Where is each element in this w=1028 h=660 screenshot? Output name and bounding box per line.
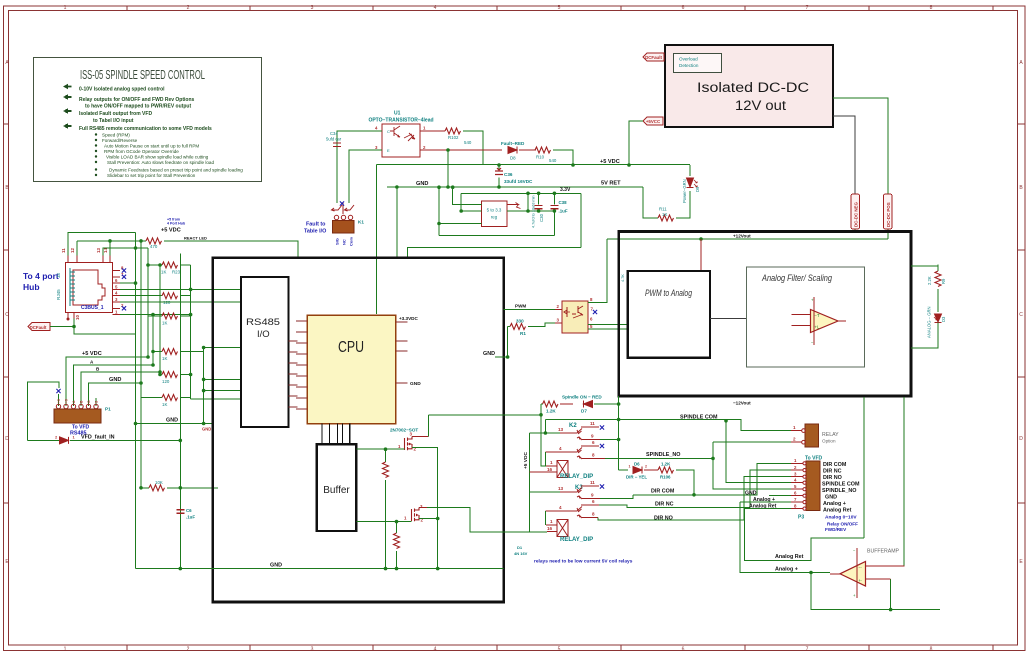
gnd stub p3 (769, 495, 791, 497)
svg-text:ISS-05 SPINDLE SPEED CONTROL: ISS-05 SPINDLE SPEED CONTROL (80, 67, 205, 82)
wire rs485 390 (204, 390, 241, 392)
junction +12v pwm drop (699, 237, 703, 241)
svg-text:C30: C30 (539, 213, 544, 222)
wire U1 pin3 to K1 (349, 150, 382, 203)
LED D9 Power-GRN (682, 165, 700, 205)
svg-text:4: 4 (559, 505, 562, 510)
svg-text:GND: GND (483, 351, 495, 357)
junction r120b left (158, 373, 162, 377)
svg-text:SPINDLE COM: SPINDLE COM (822, 482, 860, 488)
svg-text:E: E (387, 148, 390, 153)
frame row ticks right (1018, 124, 1026, 503)
svg-text:+5: +5 (65, 399, 69, 403)
resistor R9 loop (911, 265, 946, 313)
svg-text:.1uF: .1uF (186, 515, 195, 520)
svg-text:33ufd 16VDC: 33ufd 16VDC (504, 179, 533, 184)
svg-text:−T: −T (815, 313, 820, 318)
svg-text:5: 5 (558, 5, 561, 11)
junction r1kb left (151, 350, 155, 354)
junction +5 p1 (146, 355, 150, 359)
P1 pin stub1 (58, 394, 60, 406)
reg output rail (507, 210, 555, 212)
diode VFD fault (55, 435, 76, 444)
junction x153 (151, 313, 155, 317)
junction gnd rail b (497, 185, 501, 189)
K2 pin9 wire (582, 439, 600, 441)
junction 3v3 drop (459, 209, 463, 213)
svg-text:REACT LED: REACT LED (184, 236, 207, 241)
junction analog+ feedback (809, 571, 813, 575)
MOSFET Q2 (404, 504, 427, 523)
svg-text:Analog +: Analog + (823, 501, 846, 507)
svg-text:1K: 1K (162, 356, 167, 361)
svg-text:C: C (1019, 312, 1023, 318)
opto U2 pin2 stub (555, 309, 562, 311)
junction P1 gnd (139, 381, 143, 385)
K2 coil (530, 460, 569, 478)
SPINDLE_NO wire (605, 457, 713, 459)
svg-text:RELAY: RELAY (822, 432, 839, 438)
resistor R1Ka (148, 313, 191, 326)
svg-text:+5: +5 (57, 399, 61, 403)
junction gnd rail q1s (436, 567, 440, 571)
svg-text:470: 470 (150, 244, 158, 249)
K1 pin circles (334, 215, 352, 219)
svg-text:3: 3 (311, 5, 314, 11)
svg-text:CPU: CPU (338, 339, 364, 356)
wire pin11 to bus (68, 233, 136, 256)
K3 pin13 wire (530, 491, 561, 493)
P1 A wire (74, 365, 154, 406)
reg pin1 wire from gnd rail (453, 187, 482, 204)
svg-text:+L: +L (815, 325, 820, 330)
junction gnd mid b (202, 422, 206, 426)
wire rs485 399 (191, 398, 241, 400)
svg-text:D6: D6 (634, 462, 640, 467)
wire +5 rail down to CPU (375, 165, 377, 315)
svg-text:I/O: I/O (257, 329, 270, 340)
svg-text:BUFFERAMP: BUFFERAMP (867, 549, 900, 555)
CPU left pin stubs (296, 321, 307, 409)
svg-text:C38: C38 (559, 200, 568, 205)
svg-text:1: 1 (550, 460, 553, 465)
junction pin6 (134, 281, 138, 285)
junction dcfault (72, 325, 76, 329)
X pin8 (122, 268, 126, 272)
svg-text:2N7002−SOT: 2N7002−SOT (390, 428, 418, 433)
svg-text:GND: GND (270, 563, 282, 569)
svg-text:5ufd car: 5ufd car (326, 137, 342, 142)
K2 contact 2 (577, 448, 582, 460)
junction r120b right (189, 373, 193, 377)
frame column ticks bottom (127, 645, 993, 651)
capacitor C36 (495, 165, 533, 187)
svg-text:3.3V: 3.3V (560, 187, 571, 193)
CPUSEC (136, 258, 548, 602)
junction Q2 source (436, 517, 440, 521)
junction x541 (539, 413, 543, 417)
RJ45 right pin stubs (113, 271, 121, 315)
3.3V net (461, 193, 581, 211)
svg-text:ANALOG − GRN: ANALOG − GRN (927, 306, 932, 338)
svg-text:K1: K1 (358, 220, 364, 225)
LEFTSEC (23, 218, 298, 569)
pulldown resistor Q2 (394, 522, 400, 569)
capacitor C38 (550, 193, 567, 235)
wire pin6 (120, 282, 136, 284)
junction gnd into box (395, 185, 399, 189)
wire U1 pin4 to K1 (337, 131, 382, 203)
+5 VDC rail (376, 164, 690, 166)
GND wire mid (136, 423, 213, 425)
wire dc-dc neg output (833, 116, 855, 194)
opto U1 internals (390, 126, 415, 141)
wire U2 pin6 (588, 324, 628, 326)
svg-text:12: 12 (70, 248, 75, 253)
K2 pin4 drop (545, 452, 547, 466)
svg-text:+5 VDC: +5 VDC (600, 159, 620, 165)
svg-text:2: 2 (645, 465, 647, 469)
svg-text:DIR COM: DIR COM (651, 489, 675, 495)
junction 347 (202, 346, 206, 350)
svg-text:8: 8 (930, 5, 933, 11)
svg-text:7: 7 (806, 5, 809, 11)
vert 528 (527, 193, 529, 211)
junction A (151, 363, 155, 367)
svg-text:540: 540 (549, 158, 557, 163)
junction +5VCC rail (627, 163, 631, 167)
svg-text:C: C (387, 129, 390, 134)
svg-text:5 to 3.3: 5 to 3.3 (487, 208, 502, 213)
feature line 1 (63, 84, 72, 90)
vertical x135 long (135, 233, 137, 569)
svg-text:.1uF: .1uF (559, 209, 568, 214)
svg-text:GND: GND (825, 494, 837, 500)
P3 pin labels (822, 462, 860, 514)
svg-text:0-10V Isolated analog spped co: 0-10V Isolated analog spped control (79, 87, 165, 93)
capacitor C30 (532, 193, 545, 228)
wire U1 pin2 (420, 149, 502, 151)
svg-text:To 4 port: To 4 port (23, 271, 59, 281)
RJ45 jack outline (73, 270, 105, 305)
MOSFET Q1 (390, 428, 429, 452)
K3 pin9 wire DIR COM (582, 498, 600, 500)
svg-text:P1: P1 (105, 407, 111, 412)
svg-text:PWM to Analog: PWM to Analog (645, 288, 692, 298)
K3 pin8 wire DIR NO (582, 516, 598, 518)
PWMSEC (504, 232, 946, 397)
junction 390 (202, 389, 206, 393)
svg-text:Analog +: Analog + (775, 567, 798, 573)
junction x160 top (158, 263, 162, 267)
junction gnd mid a (134, 422, 138, 426)
GND bottom rail (136, 568, 504, 570)
reg bottom loop (439, 234, 554, 236)
Analog Ret net wire (745, 509, 864, 561)
svg-text:Slidebar to set trip point for: Slidebar to set trip point for Stall Pre… (107, 173, 196, 178)
vertical x541 (541, 404, 557, 466)
svg-text:SPINDLE COM: SPINDLE COM (680, 415, 718, 421)
Q2 drain red stub (419, 507, 427, 509)
wire pin3 long (120, 301, 241, 303)
svg-text:2: 2 (187, 647, 190, 653)
resistor 10K (141, 480, 218, 491)
opto U1 box (382, 124, 420, 157)
vertical k2 com spindle (618, 396, 620, 470)
svg-text:DCFault: DCFault (30, 325, 47, 330)
regulator 5 to 3.3 box (481, 201, 506, 226)
svg-text:13: 13 (96, 248, 101, 253)
junction pin14 (108, 239, 112, 243)
svg-text:540: 540 (464, 140, 472, 145)
svg-text:10K: 10K (155, 480, 163, 485)
svg-text:4N 16V: 4N 16V (514, 551, 528, 556)
svg-text:10: 10 (75, 315, 80, 320)
tag DC-DC POS (884, 194, 893, 229)
svg-text:Relay outputs for ON/OFF and F: Relay outputs for ON/OFF and FWD Rev Opt… (79, 97, 194, 103)
junction c30 top (537, 192, 541, 196)
wire pin13 (103, 248, 148, 256)
K3 pin4 wire (546, 510, 578, 512)
junction 528 top (526, 192, 530, 196)
svg-text:D: D (5, 436, 9, 442)
junction fault vertical (179, 439, 183, 443)
RJ45 top pin stubs (68, 256, 110, 263)
wire pin14 (109, 241, 111, 256)
opto U2 pin numbers (557, 297, 594, 329)
K3 pin11 wire (581, 485, 599, 487)
svg-text:GND: GND (109, 377, 121, 383)
svg-text:+12Vout: +12Vout (733, 234, 751, 239)
resistor R470 (77, 238, 298, 258)
RJ45 pin comb (70, 268, 75, 306)
resistor R102 (420, 128, 483, 165)
svg-text:Power−GRN: Power−GRN (682, 179, 687, 203)
svg-text:1: 1 (629, 465, 631, 469)
P1 pin labels (57, 399, 99, 403)
svg-text:C: C (5, 312, 9, 318)
vertical x153 (152, 315, 154, 365)
tag DCFault (643, 53, 664, 61)
pwm output wire (710, 318, 747, 320)
wire U2 pin8 to 12v (588, 239, 607, 303)
vertical x141 (140, 241, 142, 488)
junction r10 rail (571, 163, 575, 167)
K3 pin11 X (600, 484, 604, 488)
svg-text:to Tabel I/O input: to Tabel I/O input (93, 118, 134, 124)
junction Q2 gate pulldown (395, 520, 399, 524)
junction x141 bottom (139, 486, 143, 490)
P3 pin stubs (791, 462, 806, 511)
K3 pin4 drop (545, 511, 547, 525)
svg-text:5V RET: 5V RET (601, 181, 621, 187)
junction Q1 gate pulldown (384, 447, 388, 451)
svg-text:1: 1 (793, 425, 796, 430)
svg-text:D7: D7 (581, 409, 587, 414)
svg-text:D8: D8 (510, 156, 516, 161)
P1 pin6 stub (95, 398, 97, 406)
P1 +5 wire (66, 357, 148, 406)
K1 X mark (340, 201, 344, 205)
wire Q2 drain to relay K3 (427, 508, 547, 533)
wire rs485 347 (204, 347, 241, 349)
junction gnd rail x180 (179, 567, 183, 571)
pwm container box (619, 232, 911, 397)
capacitor C34 (326, 131, 342, 147)
svg-text:R102: R102 (448, 135, 459, 140)
svg-text:RELAY_DIP: RELAY_DIP (560, 474, 593, 480)
cpu container box (213, 258, 504, 602)
Q1 drain red stub (412, 436, 429, 438)
svg-text:6: 6 (682, 5, 685, 11)
wire Q1 drain up (429, 415, 541, 437)
op-amp U3 (792, 297, 846, 345)
wire x160 drop (159, 265, 161, 375)
K3 contact 2 (577, 507, 582, 519)
svg-text:+·: +· (859, 578, 863, 583)
BUFFERAMP op-amp (830, 548, 905, 598)
svg-text:Option: Option (822, 439, 836, 444)
junction gnd rail a (446, 185, 450, 189)
resistor R1 (508, 319, 555, 337)
wire +12v into pwm box (700, 239, 702, 271)
resistor R120b (160, 372, 191, 385)
junction pin13 bus (134, 246, 138, 250)
svg-text:DIR − YEL: DIR − YEL (626, 475, 647, 480)
svg-text:RJ45: RJ45 (56, 289, 61, 300)
svg-text:2: 2 (187, 5, 190, 11)
isolated dc-dc module box (665, 45, 833, 127)
diode D6 (619, 462, 648, 480)
svg-text:SPINDLE_NO: SPINDLE_NO (822, 488, 856, 494)
svg-text:4: 4 (559, 446, 562, 451)
wire fault left loop (27, 382, 59, 440)
svg-text:G: G (87, 400, 91, 403)
junction B (158, 370, 162, 374)
svg-text:Isolated Fault output from VFD: Isolated Fault output from VFD (79, 111, 152, 117)
svg-text:GND: GND (202, 427, 211, 432)
feature line 3 (63, 108, 72, 114)
wire 5vret to R11 (643, 187, 658, 218)
vertical x148 (147, 248, 149, 357)
junction c36 top (497, 163, 501, 167)
svg-text:Buffer: Buffer (323, 485, 350, 496)
resistor 1.2K D7 chain (541, 401, 573, 414)
svg-text:1K: 1K (162, 402, 167, 407)
GND / 5V RET rail (387, 186, 643, 188)
svg-text:C34: C34 (330, 131, 338, 136)
P3 pin numbers (794, 458, 797, 508)
RJ45 J3 connector body (66, 263, 113, 313)
junction spindle no (711, 457, 715, 461)
wire analog ret from box (863, 397, 865, 538)
svg-text:DIR NO: DIR NO (654, 516, 673, 522)
svg-text:R23: R23 (172, 270, 181, 275)
RS485 I/O box (241, 277, 289, 427)
junction gnd rail q2r (395, 567, 399, 571)
svg-text:8: 8 (592, 511, 595, 516)
K2 pin13 wire (530, 432, 561, 434)
tag +5VCC (643, 117, 663, 125)
svg-text:DC-DC NEG: DC-DC NEG (854, 202, 859, 227)
svg-text:DIR NC: DIR NC (655, 502, 674, 508)
svg-text:PWM: PWM (515, 304, 526, 309)
svg-text:Detection: Detection (679, 63, 699, 68)
svg-text:+5 VDC: +5 VDC (161, 228, 181, 234)
svg-text:1K: 1K (662, 212, 667, 217)
bullet list (95, 133, 97, 135)
title block box (34, 58, 262, 182)
junction d7 chain vertical (617, 402, 621, 406)
resistor R11 (658, 205, 690, 221)
svg-text:D3: D3 (941, 316, 946, 322)
+12Vout rail (607, 238, 888, 240)
K2 pin11 X (600, 425, 604, 429)
svg-text:to have ON/OFF mapped to PWR/R: to have ON/OFF mapped to PWR/REV output (85, 104, 191, 110)
junction feedback (889, 608, 893, 612)
wire pin1 (120, 314, 191, 316)
svg-text:D9: D9 (695, 186, 700, 192)
junction pin5 x190 (189, 288, 193, 292)
svg-text:GND: GND (745, 491, 757, 497)
svg-text:6: 6 (592, 499, 595, 504)
wire U2 pin5 (588, 328, 628, 330)
resistor R1Kc (141, 395, 191, 408)
wire relay option pin2 (713, 441, 791, 443)
svg-text:GND: GND (410, 381, 421, 387)
PWM to Analog box (628, 271, 710, 358)
svg-text:4 Port Hub: 4 Port Hub (167, 222, 186, 226)
vertical x180 fault to gnd (179, 254, 181, 569)
P1 pin circles (56, 404, 98, 408)
svg-text:R11: R11 (659, 207, 667, 212)
junction dir com d6 (692, 493, 696, 497)
svg-text:DIR NC: DIR NC (823, 469, 842, 475)
wire spindle com to p3 pin4 (726, 421, 791, 483)
K2 pin6 wire (581, 445, 599, 447)
junction 379 (202, 378, 206, 382)
junction c30 bottom (537, 209, 541, 213)
svg-text:Stall Prevention: Auto slows: Stall Prevention: Auto slows feedrate on… (107, 160, 214, 165)
svg-text:9: 9 (591, 434, 594, 439)
svg-text:7: 7 (806, 647, 809, 653)
wire minus from box (903, 397, 905, 566)
RS485 right pin stubs (289, 341, 298, 407)
K1 connector body (333, 221, 355, 234)
svg-text:−12Vout: −12Vout (733, 401, 751, 406)
resistor R120a on pin4 wire (120, 293, 191, 305)
pulldown resistor Q1 (383, 449, 389, 568)
junction c38 top (553, 192, 557, 196)
svg-text:Speed (RPM): Speed (RPM) (102, 133, 130, 138)
svg-text:R10: R10 (536, 155, 545, 160)
resistor R23 (148, 262, 191, 275)
svg-text:R106: R106 (660, 475, 671, 480)
svg-text:13: 13 (558, 427, 564, 432)
tag DC-DC NEG (851, 194, 860, 229)
svg-text:NC: NC (342, 239, 347, 245)
junction 10k x180 (179, 486, 183, 490)
svg-text:Auto Motion Pause on start unt: Auto Motion Pause on start until up to f… (104, 144, 199, 149)
svg-text:R1: R1 (520, 331, 526, 336)
opto U2 pin3 stub (555, 322, 562, 324)
wire rs485 286 (191, 285, 241, 287)
wire dcfault to rj45 (50, 319, 74, 327)
svg-text:8: 8 (930, 647, 933, 653)
svg-text:11: 11 (61, 248, 66, 253)
opto U2 box (562, 301, 588, 333)
junction reg outer top (437, 185, 441, 189)
